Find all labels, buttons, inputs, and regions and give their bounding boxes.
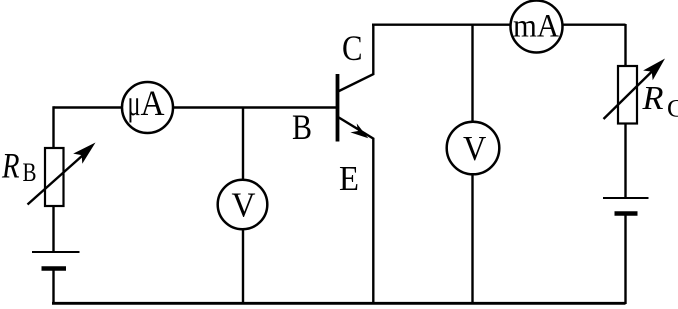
wire: right vertical through R_C to battery (624, 24, 626, 198)
svg-text:B: B (23, 158, 37, 187)
svg-text:E: E (339, 159, 359, 198)
transistor Q1 emitter line with arrow (338, 117, 374, 139)
battery E1 (left) (32, 252, 80, 269)
label R_C (641, 80, 678, 123)
label R_B (1, 146, 36, 188)
svg-text:C: C (667, 94, 678, 123)
wire: base horizontal from R_B branch to transistor base (54, 106, 339, 108)
svg-text:V: V (463, 130, 486, 168)
svg-text:C: C (342, 28, 363, 68)
wire: top rail from collector to R_C (372, 24, 626, 26)
transistor Q1 collector line (338, 74, 374, 92)
svg-text:mA: mA (513, 9, 559, 45)
svg-text:A: A (141, 83, 165, 123)
battery E2 (right) (603, 198, 649, 214)
svg-text:μ: μ (128, 83, 141, 123)
svg-text:V: V (232, 186, 256, 225)
wire: right vertical below battery (624, 214, 626, 305)
wire: bottom rail (52, 302, 626, 305)
milliammeter mA (511, 1, 563, 53)
resistor R_C (variable rheostat) (604, 59, 666, 124)
wire: voltmeter V1 vertical branch (242, 108, 244, 304)
wire: voltmeter V2 vertical branch (471, 24, 473, 303)
wire: emitter vertical down to bottom rail (372, 138, 374, 303)
wire: left vertical below battery (52, 269, 54, 305)
svg-text:B: B (292, 107, 312, 147)
voltmeter V2 (447, 122, 500, 175)
wire: left vertical R_B branch (top of battery) (52, 106, 54, 252)
svg-text:R: R (641, 80, 663, 117)
resistor R_B (variable rheostat) (28, 143, 96, 207)
wire: collector vertical riser (372, 25, 374, 75)
microammeter uA (122, 82, 173, 133)
transistor Q1 base bar (336, 74, 340, 142)
svg-text:R: R (1, 146, 19, 186)
voltmeter V1 (218, 180, 268, 230)
